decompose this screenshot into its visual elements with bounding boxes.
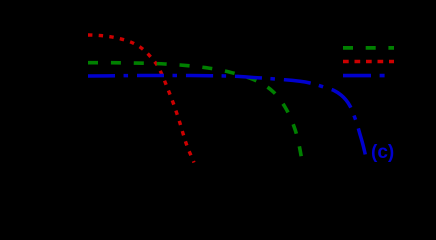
svg-text:(c): (c) — [371, 142, 394, 163]
